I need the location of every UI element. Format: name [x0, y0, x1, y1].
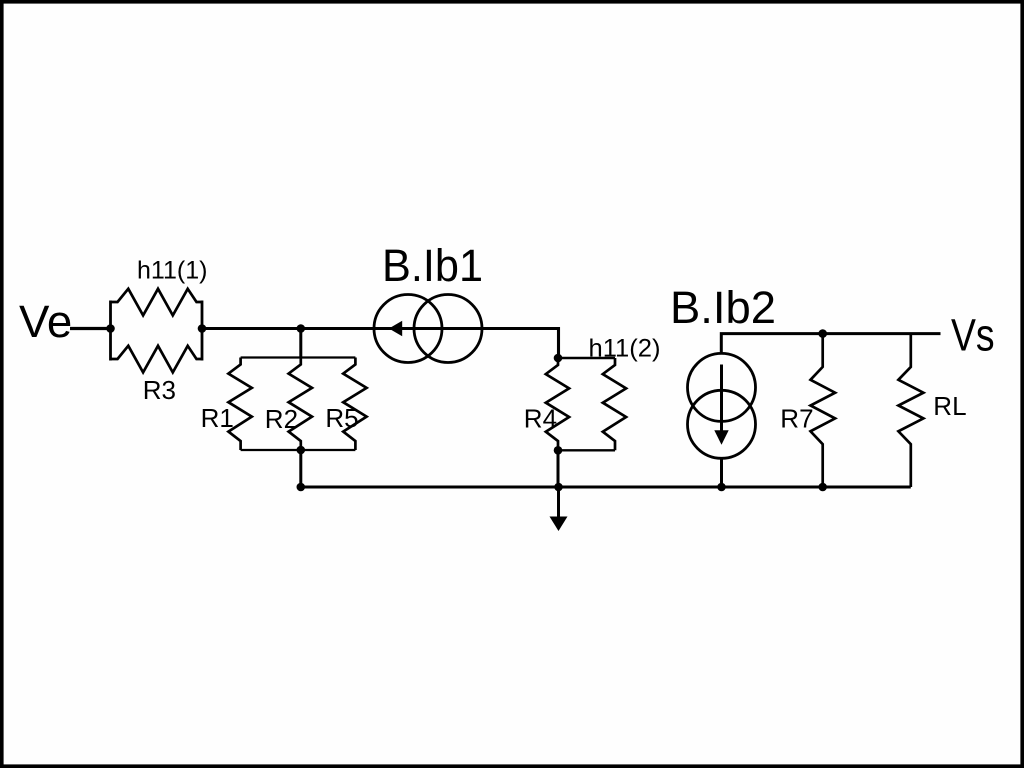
node dot input left	[106, 324, 115, 333]
current source B.Ib2 bottom circle	[688, 390, 756, 458]
wire left vertical of h11(1)/R3 pair	[109, 301, 112, 361]
ground	[550, 517, 568, 532]
current source B.Ib1 arrowhead	[389, 321, 402, 337]
svg-text:R1: R1	[201, 403, 234, 433]
wire R4 pair top rail	[558, 357, 615, 359]
wire R4 pair bottom rail	[558, 449, 615, 451]
node dot bottom wire left end	[297, 483, 306, 492]
wire R group top rail	[241, 356, 356, 358]
node dot R group bottom	[297, 446, 306, 455]
svg-text:h11(2): h11(2)	[589, 334, 661, 362]
wire right vertical of h11(1)/R3 pair	[201, 301, 204, 361]
wire R4 drop to bottom wire	[557, 450, 560, 487]
svg-text:Ve: Ve	[19, 296, 72, 347]
resistor R7	[811, 334, 836, 487]
wire bottom horizontal	[301, 486, 911, 489]
node dot R4 bottom	[554, 446, 563, 455]
current source B.Ib1 left circle	[374, 295, 442, 363]
current source B.Ib1 right circle	[414, 295, 482, 363]
current source B.Ib2 arrow shaft	[720, 365, 723, 435]
node dot B.Ib2 bottom	[717, 483, 726, 492]
node dot R4 top	[554, 354, 563, 363]
ground stem	[557, 487, 560, 517]
wire B.Ib2 top stub	[721, 334, 940, 353]
resistor R3	[111, 346, 203, 373]
resistor R4	[546, 358, 569, 450]
resistor h11(2)	[603, 358, 626, 450]
resistor h11(1)	[111, 289, 203, 316]
current source B.Ib2 arrowhead	[714, 430, 728, 445]
wire B.Ib2 bottom stub	[720, 459, 723, 487]
resistor R5	[343, 358, 366, 451]
node dot branch R group	[297, 324, 306, 333]
wire Ve to input node	[70, 327, 111, 330]
node dot R7 top	[818, 329, 827, 338]
svg-text:R7: R7	[780, 404, 813, 434]
node dot input right	[198, 324, 207, 333]
wire main horizontal to B.Ib1 and R4 corner	[202, 329, 559, 359]
svg-text:h11(1): h11(1)	[137, 257, 208, 285]
svg-text:R4: R4	[524, 404, 557, 434]
svg-text:B.Ib1: B.Ib1	[382, 240, 483, 291]
svg-text:B.Ib2: B.Ib2	[670, 282, 776, 333]
svg-text:RL: RL	[933, 391, 966, 421]
current source B.Ib2 top circle	[688, 353, 756, 421]
resistor RL with corner leads	[898, 334, 923, 487]
svg-text:Vs: Vs	[951, 310, 995, 361]
wire R group bottom rail	[241, 449, 356, 451]
svg-text:R3: R3	[143, 375, 176, 405]
resistor R2	[289, 358, 312, 451]
node dot R7 bottom	[818, 483, 827, 492]
svg-text:R5: R5	[325, 403, 358, 433]
resistor R1	[228, 358, 251, 451]
wire branch down to R group	[299, 329, 302, 358]
node dot ground junction	[554, 483, 563, 492]
svg-text:R2: R2	[265, 404, 298, 434]
wire R group bottom drop	[299, 450, 302, 487]
